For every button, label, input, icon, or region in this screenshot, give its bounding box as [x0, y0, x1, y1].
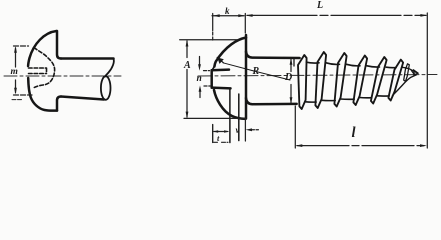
- right view: last small thread turn at point: [404, 64, 410, 82]
- left view: shank break (S-curve and loop): [105, 59, 114, 77]
- left view: shank: [61, 57, 114, 60]
- label D: [285, 72, 292, 83]
- dimension k: [212, 14, 245, 43]
- label R: [253, 66, 260, 77]
- left view: hidden slot cut arc (dashed): [33, 48, 55, 89]
- left view: head seating face: [57, 31, 61, 59]
- dimension D: [290, 60, 292, 103]
- right view: thread turn 6: [388, 60, 403, 101]
- label A: [184, 60, 191, 71]
- right view: head dome outline with slot notch: [214, 38, 246, 67]
- label n: [197, 74, 202, 84]
- dimension l: [295, 106, 425, 148]
- label R leader: [223, 63, 290, 80]
- right view: slot kerf line 2 / v-extension: [238, 94, 240, 141]
- label k: [225, 6, 230, 16]
- right view: thread turn 5: [371, 57, 387, 104]
- right view: point curl: [411, 70, 418, 75]
- right view: slot kerf line and t-extension: [229, 88, 231, 142]
- label m: [11, 67, 18, 77]
- right view: head face: [245, 35, 248, 119]
- dimension t: [214, 132, 229, 143]
- right view: shank with fillets: [246, 52, 300, 59]
- right view: slot notch: [212, 68, 229, 71]
- right view centerline: [198, 75, 437, 77]
- label l: [352, 125, 356, 142]
- left view: hidden slot bottom (dashed rectangle): [29, 68, 47, 74]
- dimension n: [200, 57, 211, 98]
- label t: [217, 133, 219, 143]
- dimension A: [180, 40, 246, 119]
- dimension m: [12, 46, 32, 100]
- dimension v: [245, 120, 258, 142]
- label v: [236, 125, 240, 135]
- left view centerline: [4, 75, 121, 77]
- right view: thread root lines top: [306, 62, 396, 67]
- dimension t extension (slot bottom face): [212, 125, 214, 143]
- label L: [317, 0, 323, 11]
- right view: gimlet point: [403, 67, 417, 72]
- right view: thread start tick: [293, 58, 295, 66]
- left view: dome head outline: [28, 31, 56, 66]
- right view: thread turn 4: [353, 56, 367, 106]
- right view: thread root lines bottom: [306, 96, 390, 102]
- right view: thread turn 1: [298, 52, 403, 109]
- dimension L: [247, 13, 427, 148]
- right view: thread turn 3: [334, 53, 346, 107]
- right view: thread turn 2: [315, 52, 326, 108]
